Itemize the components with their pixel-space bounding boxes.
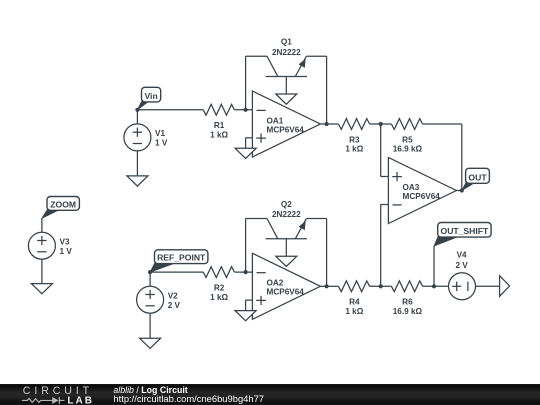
- svg-text:V1: V1: [155, 129, 165, 138]
- svg-text:1 kΩ: 1 kΩ: [210, 293, 228, 302]
- transistor Q1: [266, 38, 307, 77]
- svg-text:2 V: 2 V: [455, 261, 468, 270]
- wire: feedback top horizontal to collector: [246, 218, 267, 220]
- ground under V3: [31, 284, 52, 294]
- wire: V2 to ground: [149, 313, 151, 338]
- wire: R6 to V4: [423, 285, 449, 287]
- node: junction at R2/collector/inverting input: [244, 270, 248, 274]
- wire: REF_POINT node down to V2: [149, 272, 151, 286]
- svg-text:2 V: 2 V: [168, 301, 181, 310]
- wire: vertical R5 feedback down to OUT node: [461, 124, 463, 191]
- wire: R2 to op-amp inverting input: [235, 271, 253, 273]
- wire: ZOOM to V3: [41, 218, 43, 232]
- node OUT: [460, 188, 464, 192]
- node: R4/R6/OA3- junction: [379, 284, 383, 288]
- net flag Vin: [137, 87, 160, 110]
- ground under V1: [127, 176, 148, 186]
- footer title: [113, 385, 187, 395]
- svg-text:MCP6V64: MCP6V64: [267, 125, 305, 134]
- wire: Q2 base lead: [285, 239, 287, 256]
- resistor R6: [391, 281, 422, 316]
- svg-text:REF_POINT: REF_POINT: [157, 253, 206, 263]
- svg-text:R5: R5: [402, 135, 413, 144]
- voltage source V3: [28, 232, 72, 259]
- wire: OUT_SHIFT vertical: [433, 246, 435, 286]
- wire: Vin node to R1: [137, 109, 203, 111]
- footer url: [113, 393, 264, 404]
- voltage source V1: [124, 124, 168, 151]
- svg-text:V3: V3: [60, 237, 70, 246]
- svg-text:OA1: OA1: [267, 116, 284, 125]
- svg-text:2N2222: 2N2222: [272, 48, 301, 57]
- wire: emitter to feedback right: [306, 55, 326, 57]
- svg-text:V4: V4: [457, 250, 467, 259]
- wire: feedback right vertical to output: [326, 219, 328, 287]
- svg-text:OA2: OA2: [267, 279, 284, 288]
- svg-text:OUT: OUT: [468, 172, 487, 182]
- svg-text:V2: V2: [168, 291, 178, 300]
- ground at Q2 base: [276, 256, 297, 266]
- wire: Q1 base lead: [285, 77, 287, 95]
- op-amp OA1: [252, 91, 320, 157]
- ground under V2: [140, 338, 161, 348]
- resistor R1: [203, 104, 234, 139]
- svg-text:MCP6V64: MCP6V64: [267, 288, 305, 297]
- svg-text:1 V: 1 V: [155, 139, 168, 148]
- wire: OA2 non-inverting input to ground: [246, 300, 253, 311]
- svg-text:R1: R1: [214, 121, 225, 130]
- resistor R2: [203, 267, 234, 302]
- wire: feedback right vertical to output: [326, 56, 328, 124]
- ground at Q1 base: [276, 94, 297, 104]
- wire: OA2 output to R4: [327, 285, 339, 287]
- wire: OA1 output to R3: [327, 123, 339, 125]
- voltage source V4: [449, 250, 476, 300]
- ground at OA2 non-inverting input: [235, 311, 256, 321]
- svg-text:ZOOM: ZOOM: [50, 199, 76, 209]
- svg-text:R4: R4: [349, 298, 360, 307]
- wire: OA3 inverting input down to R4/R6 node: [381, 205, 389, 287]
- wire: feedback top horizontal to collector: [246, 55, 267, 57]
- svg-text:2N2222: 2N2222: [272, 210, 301, 219]
- ground at OA1 non-inverting input: [235, 148, 256, 158]
- node: junction at R1/collector/inverting input: [244, 108, 248, 112]
- op-amp OA3: [388, 158, 456, 224]
- wire: OA3 output stub: [456, 190, 461, 192]
- svg-text:LAB: LAB: [67, 395, 94, 405]
- svg-text:R3: R3: [349, 135, 360, 144]
- wire: emitter to feedback right: [306, 218, 326, 220]
- voltage source V2: [137, 286, 181, 313]
- svg-text:1 V: 1 V: [60, 247, 73, 256]
- wire: OA2 output stub: [320, 285, 326, 287]
- CircuitLab logo: [22, 385, 94, 405]
- resistor R4: [338, 281, 369, 316]
- wire: OA3 non-inverting input up to R3/R5 node: [381, 124, 389, 177]
- wire: R3 to node: [370, 123, 392, 125]
- wire: R1 to op-amp inverting input: [235, 109, 253, 111]
- wire: Vin node down to V1: [136, 110, 138, 124]
- net flag OUT_SHIFT: [434, 223, 491, 247]
- svg-text:OA3: OA3: [403, 183, 420, 192]
- node: OUT_SHIFT junction: [432, 284, 436, 288]
- wire: OA1 non-inverting input to ground: [246, 138, 253, 149]
- node REF_POINT: [148, 270, 152, 274]
- svg-text:Q2: Q2: [281, 200, 292, 209]
- svg-text:1 kΩ: 1 kΩ: [345, 145, 363, 154]
- net flag REF_POINT: [150, 250, 208, 272]
- wire: feedback left vertical: [245, 219, 247, 273]
- wire: V3 to ground: [41, 259, 43, 283]
- wire: feedback left vertical: [245, 56, 247, 110]
- net flag ZOOM: [42, 197, 80, 219]
- wire: V4 to ground: [476, 285, 500, 287]
- node: R3/R5/OA3+ junction: [379, 122, 383, 126]
- resistor R5: [391, 119, 422, 154]
- ground right of V4: [500, 276, 510, 297]
- svg-text:1 kΩ: 1 kΩ: [210, 131, 228, 140]
- node: OA1 output junction: [325, 122, 329, 126]
- svg-text:Q1: Q1: [281, 38, 292, 47]
- svg-text:MCP6V64: MCP6V64: [403, 192, 441, 201]
- wire: V1 to ground: [136, 151, 138, 176]
- svg-text:R6: R6: [402, 298, 413, 307]
- svg-text:Vin: Vin: [144, 91, 157, 101]
- op-amp OA2: [252, 253, 320, 319]
- svg-text:16.9 kΩ: 16.9 kΩ: [393, 307, 423, 316]
- node Vin: [135, 108, 139, 112]
- node: OA2 output junction: [325, 284, 329, 288]
- wire: OA1 output stub: [320, 123, 326, 125]
- svg-text:R2: R2: [214, 284, 225, 293]
- svg-text:http://circuitlab.com/cne6bu9b: http://circuitlab.com/cne6bu9bg4h77: [113, 393, 264, 404]
- transistor Q2: [266, 200, 307, 239]
- svg-text:OUT_SHIFT: OUT_SHIFT: [441, 226, 489, 236]
- wire: R5 to output vertical: [423, 123, 462, 125]
- svg-text:16.9 kΩ: 16.9 kΩ: [393, 145, 423, 154]
- resistor R3: [338, 119, 369, 154]
- svg-text:1 kΩ: 1 kΩ: [345, 307, 363, 316]
- wire: REF_POINT node to R2: [150, 271, 203, 273]
- wire: R4 to node: [370, 285, 392, 287]
- net flag OUT: [462, 168, 490, 190]
